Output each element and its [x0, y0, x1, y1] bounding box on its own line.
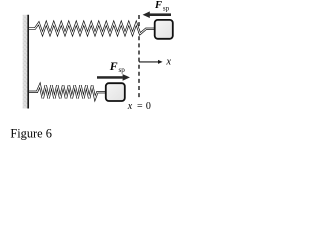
- svg-text:sp: sp: [119, 66, 126, 74]
- svg-text:F: F: [109, 59, 118, 73]
- svg-text:x: x: [165, 57, 171, 68]
- svg-text:Figure 6: Figure 6: [10, 126, 52, 140]
- svg-text:sp: sp: [163, 5, 170, 13]
- svg-text:F: F: [154, 0, 162, 11]
- svg-text:=: =: [137, 101, 143, 112]
- svg-text:x: x: [127, 101, 133, 112]
- svg-text:0: 0: [146, 101, 151, 112]
